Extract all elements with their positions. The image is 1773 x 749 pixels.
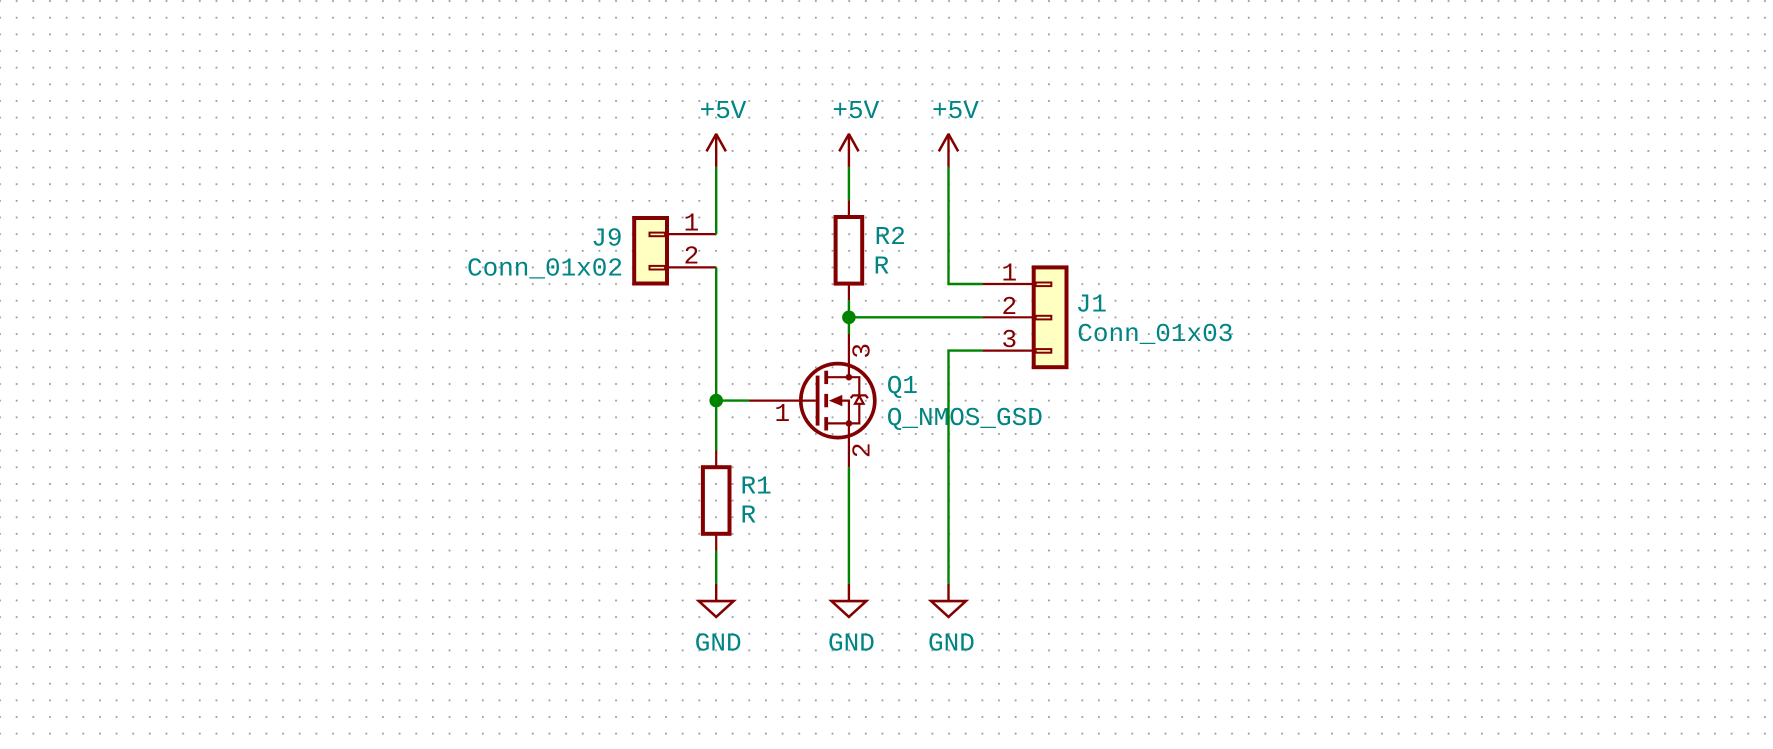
R1 pin 1: [715, 451, 717, 468]
svg-text:1: 1: [774, 399, 790, 429]
Q1 channel bar bottom: [824, 417, 828, 430]
svg-text:J1: J1: [1076, 290, 1107, 320]
wire J1 pin 3 to GND 3: [949, 351, 983, 584]
svg-text:+5V: +5V: [832, 96, 879, 126]
power +5V symbol 2: [839, 134, 858, 167]
ground symbol 2: [832, 584, 867, 617]
svg-text:+5V: +5V: [932, 96, 979, 126]
svg-text:2: 2: [847, 442, 877, 458]
svg-text:J9: J9: [591, 223, 622, 253]
wire node B to J1 pin 2: [849, 316, 983, 318]
Q1 drain internal line: [826, 376, 849, 378]
R2 pin 1: [848, 200, 850, 217]
svg-text:2: 2: [1001, 292, 1017, 322]
wire J9 pin 2 to R1: [715, 267, 717, 450]
Q1 body diode cathode bar: [851, 395, 868, 398]
junction node B: [842, 311, 856, 325]
Q1 body diode triangle: [855, 396, 864, 404]
connector J1 body: [1034, 267, 1067, 367]
svg-text:+5V: +5V: [700, 96, 747, 126]
svg-text:2: 2: [684, 242, 700, 272]
svg-text:Q1: Q1: [887, 371, 918, 401]
Q1 bulk arrow: [829, 395, 842, 406]
J1 pin 2: [983, 316, 1035, 318]
svg-text:3: 3: [1001, 325, 1017, 355]
transistor Q1 body circle: [801, 364, 875, 438]
Q1 body diode connection: [849, 377, 859, 423]
svg-text:3: 3: [847, 343, 877, 359]
wire R2 to Q1 drain: [848, 300, 850, 334]
ground symbol 1: [699, 584, 734, 617]
wire node A to Q1 gate: [716, 399, 749, 401]
svg-text:GND: GND: [695, 628, 742, 658]
svg-text:Conn_01x02: Conn_01x02: [467, 253, 623, 283]
resistor R2 body: [836, 217, 863, 284]
wire Q1 source to GND 2: [848, 467, 850, 584]
J1 pin 2 notch: [1036, 316, 1052, 320]
svg-text:R2: R2: [875, 222, 906, 252]
ground symbol 3: [931, 584, 966, 617]
svg-text:R1: R1: [741, 472, 772, 502]
R1 pin 2: [715, 534, 717, 551]
svg-text:1: 1: [1001, 259, 1017, 289]
Q1 gate pin: [749, 400, 816, 402]
Q1 source pin: [848, 423, 850, 467]
J9 pin 2: [666, 266, 716, 268]
Q1 bulk line: [842, 401, 849, 424]
svg-text:Q_NMOS_GSD: Q_NMOS_GSD: [887, 403, 1043, 433]
J1 pin 1: [983, 283, 1035, 285]
J1 pin 3 notch: [1036, 349, 1052, 353]
svg-text:1: 1: [684, 208, 700, 238]
Q1 internal junction dot top: [846, 374, 853, 381]
Q1 internal junction dot bottom: [846, 420, 853, 427]
svg-text:GND: GND: [828, 628, 875, 658]
R2 pin 2: [848, 284, 850, 301]
svg-text:R: R: [874, 252, 890, 282]
Q1 gate bar: [816, 376, 820, 426]
resistor R1 body: [703, 467, 730, 534]
Q1 drain pin: [848, 334, 850, 377]
svg-text:R: R: [741, 501, 757, 531]
J9 pin 1 notch: [650, 233, 666, 237]
J9 pin 2 notch: [650, 266, 666, 270]
J1 pin 1 notch: [1036, 283, 1052, 287]
svg-text:Conn_01x03: Conn_01x03: [1077, 319, 1233, 349]
junction node A: [709, 394, 723, 408]
wire R1 to GND 1: [715, 551, 717, 584]
Q1 channel bar middle: [824, 394, 828, 407]
power +5V symbol 1: [707, 134, 726, 167]
wire +5V to R2: [848, 167, 850, 200]
Q1 channel bar top: [824, 371, 828, 384]
svg-text:GND: GND: [928, 628, 975, 658]
connector J9 body: [634, 218, 667, 284]
J9 pin 1: [666, 233, 716, 235]
power +5V symbol 3: [939, 134, 958, 167]
J1 pin 3: [983, 350, 1035, 352]
Q1 source internal line: [826, 422, 849, 424]
wire +5V to J1 pin 1: [949, 167, 983, 284]
wire +5V to J9 pin 1: [715, 167, 717, 234]
